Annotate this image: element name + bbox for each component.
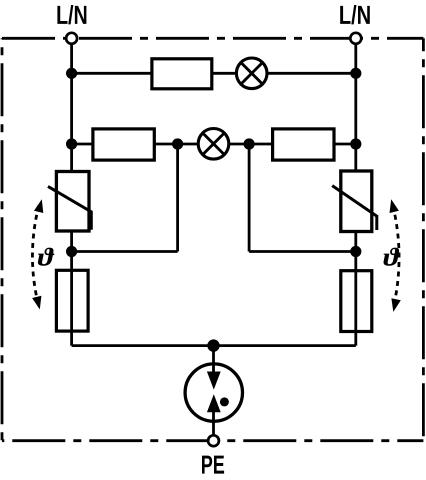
terminal PE [208,435,219,446]
label PE [202,456,224,474]
lamp H2 row2 middle [198,129,229,160]
wire left dropper vertical [176,144,179,252]
thermal disconnector F1 [56,270,88,331]
terminal L/N left [66,33,77,44]
wire left lower vertical through fuse [70,231,73,346]
node bottom middle [207,339,219,351]
lamp H1 top row [236,58,267,89]
node right varistor bottom [350,246,361,257]
varistor RV1 [48,172,91,232]
wire bottom horizontal [72,344,356,347]
wire right main vertical [354,40,357,172]
wire right lower vertical through fuse [354,231,357,346]
node row2 left-dropper [172,138,183,149]
terminal L/N right [350,33,361,44]
wire row2 horizontal [72,143,356,146]
node row2 left [66,138,77,149]
theta right [384,248,400,266]
node row2 right [350,138,361,149]
resistor R3 row2 right [273,129,334,160]
node row1 right [350,68,361,79]
wire right dropper vertical [248,144,251,252]
thermal arrow arc left [32,199,43,309]
gas discharge tube F3 [185,346,242,441]
resistor R2 row2 left [93,129,154,160]
label L/N right [340,5,370,24]
wire right varistor-to-dropper horizontal [249,250,356,253]
thermal arrow arc right [390,199,401,312]
theta left [38,248,54,266]
resistor R1 top row [152,59,212,89]
node row2 right-dropper [244,138,255,149]
node left varistor bottom [66,246,77,257]
wire left varistor-to-dropper horizontal [72,250,178,253]
wire left main vertical [70,40,73,172]
label L/N left [57,5,86,24]
varistor RV2 [332,171,377,232]
wire row1 horizontal [72,72,356,75]
node row1 left [66,68,77,79]
thermal disconnector F2 [341,271,372,332]
